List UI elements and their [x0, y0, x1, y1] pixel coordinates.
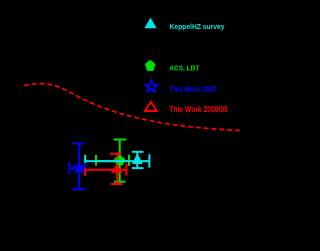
green horizontal error bar right cap	[128, 155, 130, 166]
red vertical error bar bottom cap	[111, 183, 123, 185]
legend marker: cyan filled triangle	[144, 18, 156, 29]
blue vertical error bar top cap	[72, 143, 85, 145]
legend label: cyan survey text	[170, 22, 226, 31]
legend label: green text	[169, 63, 199, 72]
cyan horizontal error bar	[85, 160, 149, 162]
data point: green (filled pentagon) with error bars	[96, 140, 129, 182]
legend marker: green filled pentagon	[145, 60, 155, 71]
blue horizontal error bar	[70, 167, 85, 169]
red vertical error bar	[116, 154, 118, 156]
svg-text:This Work 2007: This Work 2007	[170, 85, 217, 94]
red open triangle marker	[112, 166, 121, 172]
svg-text:ACS, LBT: ACS, LBT	[169, 63, 199, 72]
cyan vertical error bar bottom cap	[132, 167, 144, 169]
svg-text:KeppelHZ survey: KeppelHZ survey	[170, 22, 226, 31]
green vertical error bar top cap	[114, 139, 127, 141]
blue horizontal error bar left cap	[69, 162, 71, 175]
cyan horizontal error bar right cap	[148, 154, 150, 167]
green vertical error bar	[119, 140, 121, 182]
cyan vertical error bar	[136, 152, 138, 168]
blue open star marker	[74, 162, 84, 172]
red dashed model curve	[24, 84, 240, 131]
cyan horizontal error bar left cap	[84, 155, 86, 163]
blue horizontal error bar right cap	[84, 162, 86, 174]
cyan filled triangle marker	[132, 153, 143, 164]
green filled pentagon marker	[114, 155, 125, 166]
legend marker: blue open star	[145, 80, 157, 91]
red vertical error bar top cap	[110, 153, 122, 155]
green horizontal error bar	[96, 160, 129, 162]
legend label: red This Work 2008/09	[169, 104, 228, 114]
red horizontal error bar	[85, 169, 126, 171]
legend label: blue This Work 2007	[170, 85, 217, 94]
data point: blue (open star) with error bars	[70, 144, 86, 190]
svg-text:This Work 2008/09: This Work 2008/09	[169, 104, 228, 114]
red horizontal error bar right cap	[126, 163, 128, 175]
blue vertical error bar bottom cap	[72, 188, 85, 190]
data point: red (open triangle) with error bars	[85, 154, 126, 184]
cyan vertical error bar top cap	[132, 151, 144, 153]
green horizontal error bar left cap	[95, 155, 97, 166]
red horizontal error bar left cap	[84, 168, 86, 176]
data point: cyan (filled triangle) with error bars	[85, 152, 149, 168]
green vertical error bar bottom cap	[114, 181, 125, 183]
blue vertical error bar	[78, 144, 80, 190]
legend marker: red open triangle	[145, 102, 157, 111]
